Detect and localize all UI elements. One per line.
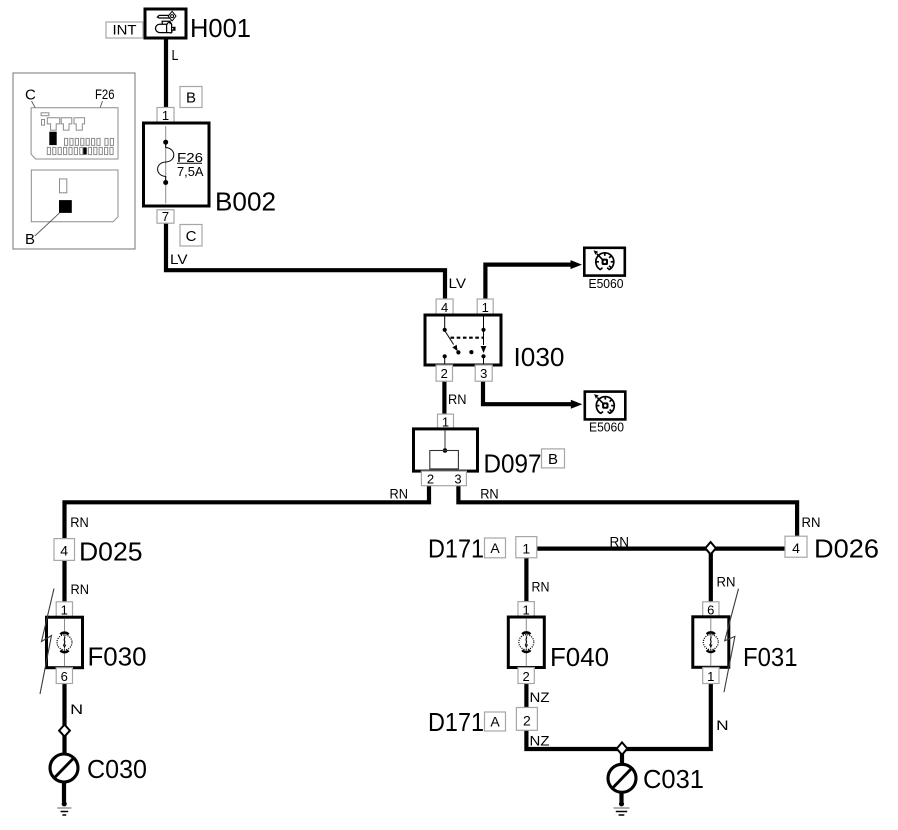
svg-text:1: 1 (482, 300, 489, 315)
svg-text:1: 1 (442, 415, 449, 430)
svg-text:F031: F031 (743, 644, 798, 672)
svg-text:N: N (70, 701, 83, 717)
svg-text:B002: B002 (215, 188, 276, 216)
svg-text:B: B (548, 451, 558, 468)
svg-text:B: B (25, 231, 35, 248)
svg-text:A: A (490, 714, 500, 730)
svg-text:A: A (490, 540, 500, 556)
svg-text:3: 3 (454, 472, 461, 487)
svg-text:F030: F030 (88, 643, 147, 671)
svg-text:F26: F26 (95, 86, 115, 102)
svg-text:2: 2 (522, 669, 529, 684)
svg-text:C030: C030 (87, 756, 147, 784)
svg-text:C: C (186, 228, 197, 245)
svg-text:1: 1 (162, 108, 169, 123)
svg-text:C: C (25, 87, 36, 104)
svg-text:2: 2 (427, 472, 434, 487)
svg-text:NZ: NZ (530, 689, 550, 705)
svg-text:RN: RN (610, 534, 630, 550)
svg-text:C031: C031 (643, 766, 704, 794)
svg-text:F040: F040 (550, 644, 609, 672)
svg-text:NZ: NZ (530, 732, 550, 748)
svg-text:E5060: E5060 (589, 277, 624, 291)
svg-text:D026: D026 (814, 536, 879, 564)
svg-text:D171: D171 (428, 709, 484, 737)
svg-text:E5060: E5060 (589, 421, 624, 435)
svg-text:LV: LV (449, 275, 467, 291)
svg-text:B: B (186, 90, 196, 107)
svg-text:4: 4 (60, 543, 68, 559)
svg-text:N: N (716, 717, 729, 733)
svg-text:6: 6 (707, 603, 714, 618)
svg-text:6: 6 (61, 669, 68, 684)
svg-text:4: 4 (441, 300, 448, 315)
svg-text:3: 3 (480, 366, 487, 381)
svg-text:1: 1 (522, 541, 530, 557)
svg-text:D171: D171 (428, 536, 484, 564)
svg-text:1: 1 (61, 603, 68, 618)
svg-text:RN: RN (390, 485, 409, 501)
svg-text:RN: RN (480, 485, 499, 501)
svg-text:7,5A: 7,5A (177, 164, 204, 179)
svg-text:RN: RN (71, 581, 90, 597)
svg-text:RN: RN (448, 391, 467, 407)
svg-text:1: 1 (707, 669, 714, 684)
svg-text:LV: LV (170, 251, 188, 267)
svg-text:4: 4 (792, 540, 800, 556)
svg-text:7: 7 (162, 209, 169, 224)
svg-text:RN: RN (70, 514, 89, 530)
svg-text:D097: D097 (484, 451, 542, 479)
svg-text:2: 2 (523, 712, 531, 728)
svg-text:RN: RN (802, 514, 821, 530)
svg-text:L: L (172, 47, 179, 64)
svg-text:D025: D025 (79, 539, 143, 567)
svg-text:1: 1 (522, 603, 529, 618)
svg-text:H001: H001 (190, 15, 251, 43)
svg-text:INT: INT (113, 23, 137, 38)
svg-text:I030: I030 (514, 344, 565, 372)
svg-text:2: 2 (441, 366, 448, 381)
svg-text:RN: RN (532, 579, 550, 595)
svg-text:RN: RN (717, 573, 736, 589)
